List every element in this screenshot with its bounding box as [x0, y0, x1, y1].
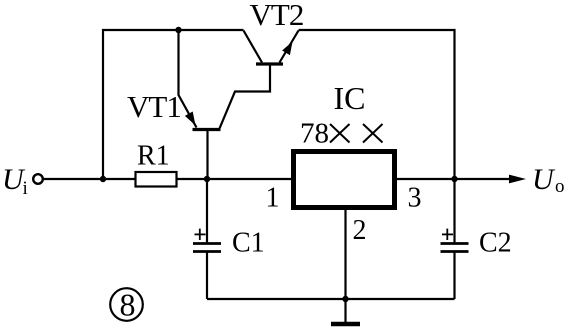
svg-text:C2: C2: [479, 228, 512, 259]
x mark 2: [363, 124, 383, 143]
svg-text:VT1: VT1: [127, 89, 181, 124]
ground: [331, 299, 360, 324]
VT1 emitter arrow: [185, 112, 196, 126]
C2 plus: [442, 229, 453, 240]
resistor R1: [136, 172, 177, 187]
wire right rail to C2: [453, 179, 455, 243]
node left-rail: [100, 176, 106, 182]
svg-text:8: 8: [120, 287, 136, 323]
svg-text:o: o: [555, 176, 565, 197]
IC U1 78xx regulator box: [294, 152, 395, 208]
VT2 emitter lead: [280, 31, 299, 63]
node ground: [342, 296, 348, 302]
svg-text:3: 3: [408, 183, 422, 214]
figure number 8: [110, 287, 143, 323]
wire top-right rail: [299, 30, 455, 179]
wire node A to C1: [206, 179, 208, 243]
svg-text:R1: R1: [137, 141, 170, 172]
VT1 base lead: [206, 130, 208, 180]
VT1 emitter lead: [179, 30, 197, 128]
node top: [175, 27, 181, 33]
svg-text:i: i: [23, 178, 28, 199]
VT1 base bar: [193, 128, 221, 131]
VT2 base bar: [256, 62, 283, 65]
svg-text:VT2: VT2: [250, 0, 304, 32]
svg-text:IC: IC: [334, 80, 366, 116]
transistor VT1: [179, 30, 271, 179]
wire C2 to bottom rail: [453, 252, 455, 299]
node output: [451, 176, 457, 182]
capacitor C1: [193, 244, 221, 252]
wire bottom rail: [207, 298, 455, 300]
wire IC pin2 down: [344, 210, 346, 299]
wire IC pin3 to output: [397, 178, 512, 180]
svg-text:U: U: [532, 163, 556, 196]
VT2 collector lead: [244, 31, 263, 63]
wire input line left segment: [44, 178, 136, 180]
x mark 1: [330, 124, 350, 143]
input terminal: [33, 174, 43, 184]
capacitor C2: [441, 244, 469, 252]
VT1 collector lead to VT2 base: [220, 66, 271, 129]
wire R1 to node A: [177, 178, 292, 180]
node A: [204, 176, 210, 182]
transistor VT2: [244, 31, 299, 65]
svg-text:78: 78: [300, 118, 329, 150]
VT2 emitter arrow: [282, 42, 292, 56]
wire C1 to bottom rail: [206, 252, 208, 299]
output arrow: [509, 175, 526, 184]
svg-text:2: 2: [353, 215, 367, 246]
C1 plus: [195, 229, 206, 240]
svg-text:1: 1: [266, 183, 280, 214]
svg-text:C1: C1: [232, 228, 265, 259]
wire left rail: [103, 30, 244, 179]
